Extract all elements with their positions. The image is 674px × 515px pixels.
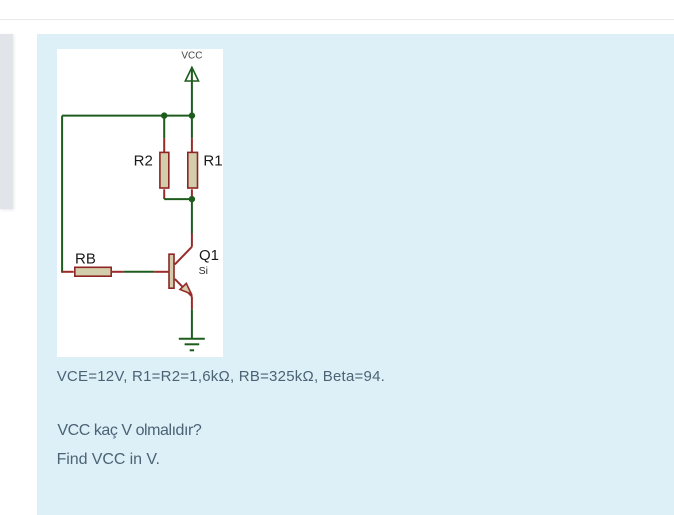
svg-text:R1: R1 xyxy=(203,153,222,170)
svg-text:Q1: Q1 xyxy=(199,247,219,264)
svg-text:RB: RB xyxy=(75,250,96,267)
svg-text:R2: R2 xyxy=(134,153,153,170)
svg-text:Si: Si xyxy=(199,265,208,277)
svg-text:VCC: VCC xyxy=(181,51,202,62)
